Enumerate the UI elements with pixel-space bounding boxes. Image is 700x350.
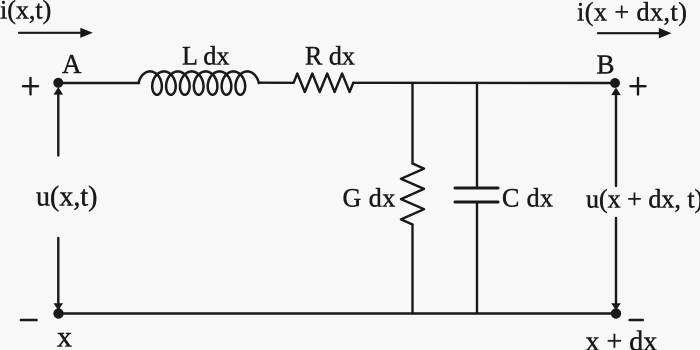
node A dot	[53, 78, 63, 88]
arrowhead voltage left up	[54, 87, 64, 95]
arrowhead current left	[80, 28, 93, 38]
svg-text:R dx: R dx	[305, 42, 355, 71]
arrowhead voltage right down	[611, 303, 621, 310]
minus sign left	[21, 319, 37, 322]
arrowhead voltage left down	[54, 303, 64, 310]
wire: G branch bottom	[411, 225, 413, 314]
arrowhead current right	[659, 28, 672, 39]
wire: G branch top	[411, 83, 413, 164]
node B dot	[610, 78, 620, 88]
svg-text:x + dx: x + dx	[586, 327, 658, 350]
svg-text:i(x + dx,t): i(x + dx,t)	[577, 0, 687, 27]
node bottom-left dot	[53, 308, 63, 318]
wire: resistor to node B	[353, 82, 615, 85]
voltage arrow right lower line	[615, 218, 617, 304]
svg-text:x: x	[57, 321, 72, 350]
svg-text:u(x + dx, t): u(x + dx, t)	[586, 185, 700, 214]
wire top: node A to inductor	[58, 82, 139, 84]
svg-text:A: A	[62, 49, 82, 79]
svg-text:u(x,t): u(x,t)	[36, 182, 97, 213]
svg-text:G dx: G dx	[343, 184, 396, 213]
arrowhead voltage right up	[611, 88, 621, 96]
voltage arrow right upper line	[615, 94, 617, 186]
wire bottom	[58, 312, 616, 314]
wire: inductor to resistor	[260, 81, 294, 84]
shunt conductance G dx (resistor zigzag)	[401, 164, 424, 225]
voltage arrow left upper line	[57, 94, 59, 156]
resistor R dx	[294, 74, 354, 93]
wire: C branch bottom	[476, 204, 478, 314]
voltage arrow left lower line	[57, 238, 59, 304]
svg-text:B: B	[597, 50, 615, 80]
plus sign left	[23, 85, 38, 87]
svg-text:i(x,t): i(x,t)	[0, 0, 51, 25]
wire: C branch top	[476, 83, 478, 187]
capacitor C dx plates	[455, 187, 498, 190]
svg-text:C dx: C dx	[502, 184, 553, 213]
node bottom-right dot	[611, 308, 621, 318]
minus sign right	[630, 319, 643, 322]
current arrow i(x,t) line	[19, 32, 81, 34]
inductor L dx	[139, 71, 259, 94]
current arrow i(x+dx,t) line	[598, 32, 660, 34]
svg-text:L dx: L dx	[182, 42, 229, 71]
plus sign right	[631, 85, 646, 87]
